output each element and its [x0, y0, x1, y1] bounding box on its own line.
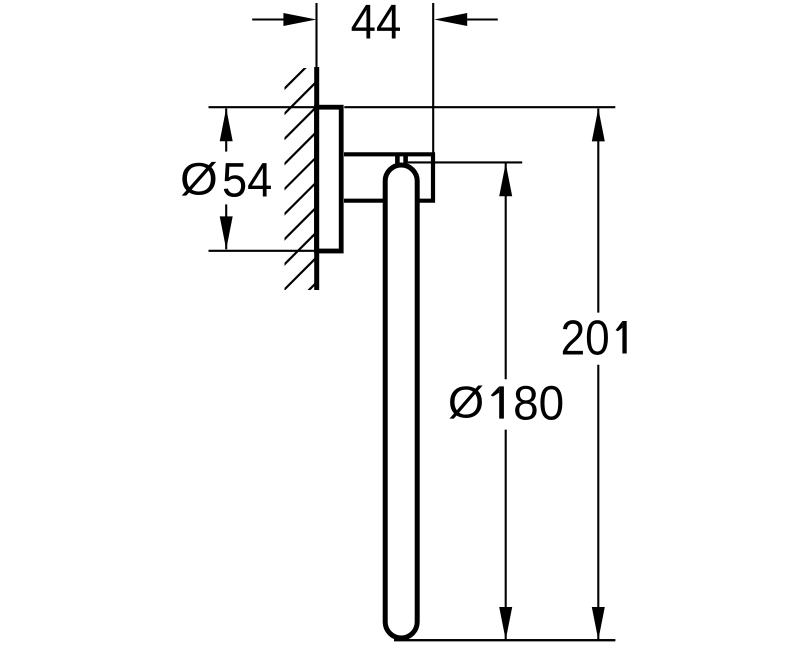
svg-text:44: 44 — [351, 0, 402, 50]
svg-text:Ø: Ø — [180, 155, 218, 205]
svg-text:Ø: Ø — [448, 378, 484, 427]
svg-text:80: 80 — [513, 377, 564, 430]
svg-text:54: 54 — [222, 154, 272, 207]
svg-text:20: 20 — [561, 312, 610, 366]
